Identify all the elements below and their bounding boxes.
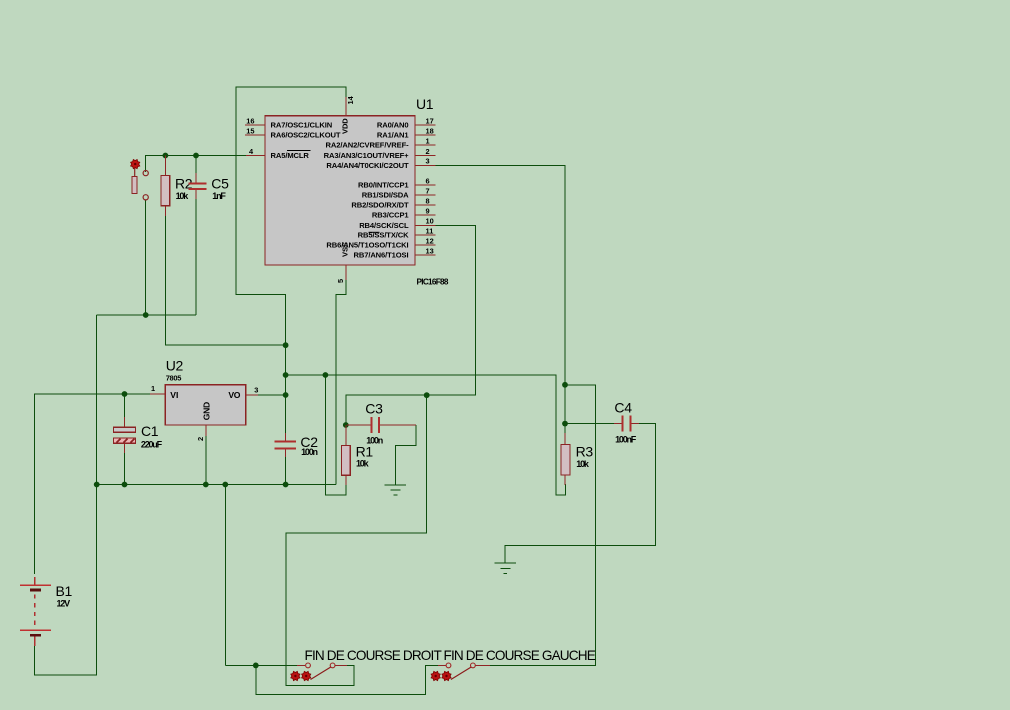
node C4 on pin3 vert <box>562 421 568 427</box>
wire VDD net: U1 pin14 top to +5V vertical <box>236 87 346 434</box>
svg-text:RA2/AN2/CVREF/VREF-: RA2/AN2/CVREF/VREF- <box>326 141 410 150</box>
U2 pin1 stub <box>150 393 165 395</box>
svg-text:RA0/AN0: RA0/AN0 <box>377 121 409 130</box>
svg-text:220uF: 220uF <box>141 440 163 450</box>
svg-text:RB0/INT/CCP1: RB0/INT/CCP1 <box>358 181 409 190</box>
svg-text:7: 7 <box>426 186 430 195</box>
pin 14 stub VDD top <box>345 97 347 116</box>
button actuator star <box>131 160 140 169</box>
resistor R2 <box>164 156 166 176</box>
node C2 bottom on ground rail <box>283 482 289 488</box>
svg-text:14: 14 <box>346 95 355 104</box>
wire branch pin3 net to FDC GAUCHE right terminal <box>490 385 595 666</box>
wire U1 pin5 VSS to ground rail end <box>336 265 346 485</box>
svg-text:RB6/AN5/T1OSO/T1CKI: RB6/AN5/T1OSO/T1CKI <box>326 241 408 250</box>
wire U1 pin3 to R3 top <box>435 165 565 434</box>
svg-text:C4: C4 <box>614 400 632 416</box>
svg-text:RB1/SDI/SDA: RB1/SDI/SDA <box>362 191 409 200</box>
pin 5 stub VSS bottom <box>345 265 347 280</box>
node left trunk on ground rail <box>94 482 100 488</box>
svg-text:C5: C5 <box>211 176 229 192</box>
svg-text:13: 13 <box>426 246 434 255</box>
wire lower switch rail to FDC GAUCHE left terminal <box>256 665 438 694</box>
node C5 top on MCLR <box>193 153 199 159</box>
wire U2 VO to +5V vertical <box>258 394 286 396</box>
svg-text:C3: C3 <box>365 401 383 417</box>
pin 8 stub <box>415 204 435 206</box>
svg-text:17: 17 <box>426 116 434 125</box>
svg-text:18: 18 <box>426 126 434 135</box>
svg-text:RB2/SDO/RX/DT: RB2/SDO/RX/DT <box>351 201 409 210</box>
svg-text:RA3/AN3/C1OUT/VREF+: RA3/AN3/C1OUT/VREF+ <box>324 151 410 160</box>
svg-text:8: 8 <box>426 196 430 205</box>
node button bottom on rail315 <box>143 312 149 318</box>
node C1 top on VI wire <box>122 391 128 397</box>
svg-text:C1: C1 <box>141 423 159 439</box>
svg-text:1: 1 <box>151 384 155 393</box>
svg-text:3: 3 <box>426 157 430 166</box>
svg-text:100nF: 100nF <box>615 435 637 445</box>
resistor R3 <box>564 433 566 445</box>
node U2 GND on ground rail <box>203 482 209 488</box>
pin 18 stub <box>415 134 435 136</box>
svg-text:R3: R3 <box>576 443 594 459</box>
svg-text:U2: U2 <box>166 358 184 374</box>
node VO on +5V vertical <box>283 392 289 398</box>
ground symbol near C4 <box>495 563 516 573</box>
wire U2 GND pin down <box>205 434 207 485</box>
pin 3 stub <box>415 164 435 166</box>
pin 11 stub <box>415 234 435 236</box>
svg-text:9: 9 <box>426 206 430 215</box>
U1 right pin stubs <box>346 97 435 280</box>
wire C5 top branch <box>195 156 197 175</box>
svg-text:R1: R1 <box>356 444 374 460</box>
svg-text:FIN DE COURSE GAUCHE: FIN DE COURSE GAUCHE <box>444 648 596 663</box>
wire switch-left vertical <box>224 485 226 666</box>
svg-text:RA7/OSC1/CLKIN: RA7/OSC1/CLKIN <box>271 121 333 130</box>
svg-text:12V: 12V <box>57 599 71 609</box>
svg-text:RB4/SCK/SCL: RB4/SCK/SCL <box>359 221 409 230</box>
wire C4 right to ground <box>505 424 656 563</box>
U1 left pin names <box>271 121 341 161</box>
resistor R1 <box>345 425 347 446</box>
wire U1 pin10 to C3/R1 junction <box>346 225 476 425</box>
push button (reset) <box>131 160 149 200</box>
IC U1 PIC16F88 microcontroller body <box>265 116 415 265</box>
node switch vert on ground rail <box>222 482 228 488</box>
wire rail y315 <box>97 314 196 316</box>
node switch branch on pin10 line <box>424 392 430 398</box>
svg-text:VDD: VDD <box>341 118 350 134</box>
svg-text:RA4/AN4/T0CKI/C2OUT: RA4/AN4/T0CKI/C2OUT <box>326 161 409 170</box>
wire C3 right to ground <box>396 425 416 485</box>
svg-text:100n: 100n <box>301 447 317 457</box>
wire R2 bottom to +5V vertical <box>165 215 285 345</box>
wire y375 net to R3 bottom loop <box>286 375 566 495</box>
U1 right pin names <box>324 121 410 260</box>
capacitor C5 <box>189 183 207 185</box>
node R2 line on +5V vertical <box>283 342 289 348</box>
svg-text:5: 5 <box>336 279 345 283</box>
pin 10 stub <box>415 224 435 226</box>
pin 6 stub <box>415 184 435 186</box>
svg-text:VI: VI <box>170 390 178 400</box>
svg-text:15: 15 <box>246 126 254 135</box>
svg-text:VSS: VSS <box>341 242 350 257</box>
svg-text:1: 1 <box>426 136 430 145</box>
pin 7 stub <box>415 194 435 196</box>
svg-text:GND: GND <box>202 402 212 420</box>
pin 9 stub <box>415 214 435 216</box>
wire C4 left from pin3 net <box>565 423 614 425</box>
wire FDC DROIT left terminal <box>225 664 297 666</box>
node junction dots <box>94 153 568 669</box>
gauche actuator stars <box>431 671 440 680</box>
capacitor C4 <box>621 416 623 432</box>
node R1 loop on y375 <box>323 372 329 378</box>
regulator U2 7805 body <box>165 385 246 425</box>
wire branch to R1 bottom loop <box>325 375 345 495</box>
svg-text:1nF: 1nF <box>212 191 226 201</box>
pin 16 stub RA7 <box>245 124 265 126</box>
svg-text:12: 12 <box>426 236 434 245</box>
svg-text:RB5/SS/TX/CK: RB5/SS/TX/CK <box>358 231 410 240</box>
svg-text:PIC16F88: PIC16F88 <box>417 278 449 287</box>
U1 left pin stubs <box>245 125 265 156</box>
svg-text:11: 11 <box>426 226 434 235</box>
pin 1 stub <box>415 144 435 146</box>
U2 pin2 stub <box>205 425 207 436</box>
node lower rail on droit left wire <box>253 663 259 669</box>
wire ground rail <box>97 484 336 486</box>
svg-text:6: 6 <box>426 176 430 185</box>
svg-text:U1: U1 <box>416 96 434 112</box>
svg-text:3: 3 <box>254 386 258 395</box>
svg-text:RB7/AN6/T1OSI: RB7/AN6/T1OSI <box>354 251 409 260</box>
battery B1 <box>20 577 51 646</box>
svg-text:FIN DE COURSE DROIT: FIN DE COURSE DROIT <box>305 648 442 663</box>
pin 17 stub <box>415 124 435 126</box>
wire +5V vertical below C2 to ground rail <box>285 456 287 485</box>
wire left trunk x96.7 down to battery loop <box>35 315 97 675</box>
SS overline on RB5 <box>369 231 380 233</box>
droit actuator stars <box>291 671 300 680</box>
wire C1 top branch <box>124 394 126 418</box>
U1 pin numbers left <box>246 116 254 155</box>
node C1 bottom on ground rail <box>122 482 128 488</box>
svg-text:RB3/CCP1: RB3/CCP1 <box>372 211 409 220</box>
pin 12 stub <box>415 244 435 246</box>
U2 pin3 stub <box>246 394 258 396</box>
svg-text:16: 16 <box>246 116 254 125</box>
wire MCLR net horizontal <box>146 156 246 173</box>
svg-text:10: 10 <box>426 217 434 226</box>
svg-text:2: 2 <box>196 437 205 441</box>
node gauche branch on pin3 vert <box>562 382 568 388</box>
wire C1 bottom to ground rail <box>124 452 126 485</box>
capacitor C1 electrolytic <box>114 427 136 432</box>
svg-text:VO: VO <box>228 390 240 400</box>
svg-text:RA6/OSC2/CLKOUT: RA6/OSC2/CLKOUT <box>271 131 341 140</box>
svg-text:B1: B1 <box>56 583 73 599</box>
capacitor C2 <box>275 440 297 442</box>
capacitor C3 <box>370 417 372 433</box>
MCLR overline <box>287 150 311 152</box>
node R2 top on MCLR <box>163 153 169 159</box>
pin 15 stub RA6 <box>245 134 265 136</box>
ground symbol near R1/C3 <box>385 485 407 495</box>
svg-text:RA5/MCLR: RA5/MCLR <box>271 151 310 160</box>
pin 4 stub RA5/MCLR <box>246 155 265 157</box>
wire battery top to U2 VI <box>35 394 150 574</box>
pin 13 stub <box>415 254 435 256</box>
wire branch x426.7 to FDC DROIT right terminal <box>286 395 427 685</box>
wire button bottom to rail <box>145 200 147 315</box>
svg-text:RA1/AN1: RA1/AN1 <box>377 131 410 140</box>
svg-text:7805: 7805 <box>166 374 182 383</box>
node C3/R1/pin10 junction <box>343 422 349 428</box>
U1 pin numbers right <box>426 116 434 255</box>
wire C5 bottom to rail <box>195 198 197 315</box>
pin 2 stub <box>415 155 435 157</box>
svg-text:2: 2 <box>426 147 430 156</box>
node y375 on +5V vertical <box>283 372 289 378</box>
